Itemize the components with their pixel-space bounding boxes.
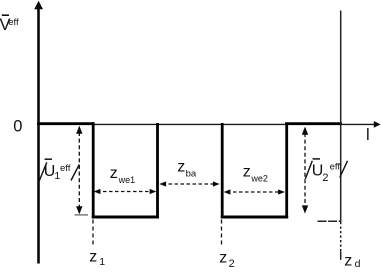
label z_we2 bbox=[243, 164, 268, 184]
svg-text:2: 2 bbox=[322, 172, 328, 184]
U2 eff dashed double arrow bbox=[302, 127, 308, 214]
dashed level line right of well 2 bbox=[318, 220, 342, 222]
svg-text:d: d bbox=[355, 258, 361, 270]
label z1 bbox=[89, 249, 105, 269]
svg-text:z: z bbox=[177, 159, 185, 176]
label z2 bbox=[219, 250, 234, 271]
V axis arrowhead bbox=[34, 1, 43, 9]
well 1 bottom bbox=[92, 216, 159, 219]
svg-text:1: 1 bbox=[99, 256, 105, 268]
potential zero segment left (thick) bbox=[37, 122, 94, 125]
svg-text:z: z bbox=[344, 252, 352, 269]
svg-text:we1: we1 bbox=[118, 175, 136, 185]
z_ba dimension arrow between wells bbox=[159, 181, 219, 186]
svg-text:we2: we2 bbox=[250, 174, 268, 184]
well 1 left edge bbox=[92, 122, 95, 218]
svg-text:ba: ba bbox=[186, 169, 197, 180]
z2 dashed guide line below well 2 bbox=[221, 220, 223, 247]
svg-text:z: z bbox=[219, 250, 227, 267]
svg-text:eff: eff bbox=[330, 161, 341, 172]
well 2 right edge bbox=[285, 123, 288, 218]
svg-text:z: z bbox=[89, 249, 97, 266]
label U2 eff with slashes bbox=[305, 159, 347, 184]
U1 eff dashed double arrow bbox=[76, 126, 82, 215]
svg-text:2: 2 bbox=[229, 258, 235, 270]
solid stub below dotted line bbox=[340, 252, 342, 260]
well 2 left edge bbox=[221, 123, 224, 218]
well 2 bottom bbox=[221, 216, 288, 219]
label z_we1 bbox=[110, 165, 135, 185]
dotted continuation of detector line bbox=[340, 222, 342, 252]
V axis (vertical) bbox=[37, 7, 40, 264]
svg-text:eff: eff bbox=[60, 163, 71, 174]
level tick at bottom of U1 arrow bbox=[75, 214, 89, 216]
axis label V-bar eff bbox=[0, 15, 19, 34]
detector vertical thin line z_d bbox=[340, 11, 342, 222]
l axis (horizontal) bbox=[37, 123, 375, 125]
potential zero segment right (thick) bbox=[285, 122, 342, 125]
label z_ba bbox=[177, 159, 197, 180]
l axis arrowhead bbox=[374, 121, 381, 128]
z_we1 dimension arrow inside well 1 bbox=[94, 189, 157, 194]
z_we2 dimension arrow inside well 2 bbox=[224, 189, 285, 194]
svg-text:eff: eff bbox=[8, 17, 19, 28]
svg-text:z: z bbox=[110, 165, 118, 182]
well 1 right edge bbox=[156, 123, 159, 218]
label z_d bbox=[344, 252, 360, 270]
svg-text:l: l bbox=[366, 126, 370, 144]
svg-text:0: 0 bbox=[13, 118, 22, 136]
label U1 eff with slashes bbox=[39, 159, 79, 182]
svg-text:z: z bbox=[243, 164, 251, 181]
z1 dashed guide line below well 1 bbox=[92, 220, 94, 247]
